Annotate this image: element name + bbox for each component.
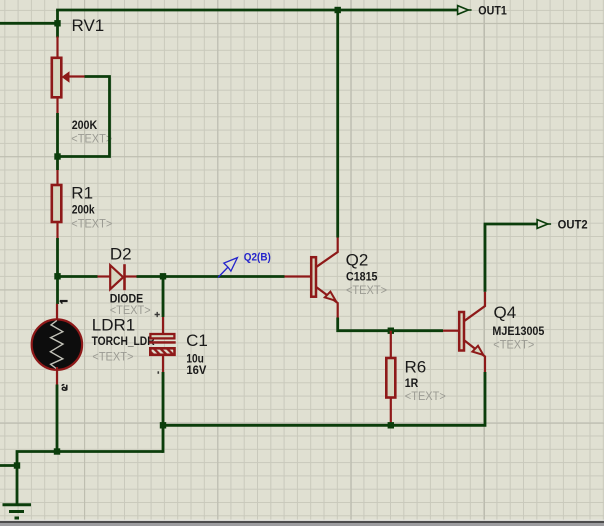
- wire: ground rail horizontal: [17, 452, 163, 466]
- svg-text:R6: R6: [405, 357, 427, 376]
- LDR1 zigzag: [50, 321, 63, 370]
- D2 cathode pin: [124, 275, 136, 277]
- R6 bottom pin: [390, 398, 392, 426]
- transistor Q2: [285, 238, 388, 318]
- junction dot R6 bottom: [388, 422, 394, 428]
- wire: left supply stub into junction: [0, 22, 58, 25]
- capacitor C1: [149, 277, 208, 378]
- wire: riser from junction to top rail: [56, 10, 59, 38]
- svg-text:RV1: RV1: [72, 16, 105, 35]
- svg-text:TORCH_LDR: TORCH_LDR: [92, 334, 155, 348]
- wire: down to ground symbol: [16, 466, 19, 505]
- Q2 collector lead: [317, 238, 338, 267]
- svg-text:OUT2: OUT2: [558, 218, 588, 232]
- junction dot C1 node: [160, 273, 166, 279]
- C1 top plate bar: [149, 341, 175, 344]
- C1 top plate: [150, 334, 174, 338]
- svg-text:OUT1: OUT1: [478, 4, 507, 18]
- Q2 base bar: [311, 257, 316, 297]
- wire: top rail to OUT1: [56, 9, 458, 12]
- wire: R1 bottom to base node: [56, 238, 59, 304]
- wire: C1 node to Q2 base: [163, 275, 285, 278]
- wire: RV1 wiper loop: [58, 77, 110, 157]
- R6 body: [386, 358, 395, 398]
- wire: left edge stub: [0, 464, 17, 467]
- plus mark: [155, 312, 160, 317]
- junction dot ground stub: [14, 462, 20, 468]
- junction dot emitter rail at C1: [160, 422, 166, 428]
- C1 bottom plate hatched: [150, 348, 174, 355]
- ground: [3, 505, 32, 518]
- svg-text:MJE13005: MJE13005: [492, 324, 544, 338]
- svg-text:200k: 200k: [72, 202, 95, 216]
- Q4 emitter lead: [465, 341, 486, 373]
- wire: Q2 emitter down and over to Q4 base: [338, 318, 443, 331]
- photoresistor LDR1: [32, 301, 155, 391]
- terminal OUT1: [458, 4, 507, 18]
- svg-text:LDR1: LDR1: [92, 316, 135, 335]
- svg-text:1R: 1R: [405, 376, 419, 390]
- Q2 emitter lead: [317, 287, 338, 317]
- LDR1 top pin: [56, 304, 58, 322]
- svg-text:R1: R1: [71, 184, 93, 203]
- RV1 wiper arrowhead: [63, 73, 69, 82]
- C1 bottom pin: [162, 355, 164, 372]
- wire: D2 cathode to C1 node: [137, 275, 164, 278]
- junction dot at supply branch: [54, 20, 60, 26]
- RV1 bottom pin: [56, 98, 58, 114]
- diode D2: [98, 245, 151, 317]
- transistor Q4: [443, 292, 545, 372]
- junction dot R6 top: [388, 328, 394, 334]
- pin number 1: [60, 300, 68, 302]
- D2 triangle: [110, 265, 123, 289]
- Q4 base bar: [459, 312, 464, 351]
- R6 top pin: [390, 331, 392, 358]
- wire: C1 bottom down to ground rail corner: [162, 372, 165, 453]
- Q4 collector lead: [465, 292, 486, 321]
- wire: LDR1 bottom to ground rail: [56, 385, 59, 452]
- wire: base node to D2 anode: [58, 275, 98, 278]
- junction dot LDR bottom: [54, 448, 60, 454]
- R1 bottom pin: [56, 222, 58, 238]
- D2 anode pin: [98, 275, 111, 277]
- junction dot wiper/divider: [54, 153, 60, 159]
- terminal OUT2: [537, 218, 588, 232]
- pin number 2: [62, 385, 67, 391]
- svg-text:<TEXT>: <TEXT>: [71, 216, 112, 230]
- RV1 wiper pin: [64, 75, 85, 77]
- R1 top pin: [56, 170, 58, 185]
- svg-text:<TEXT>: <TEXT>: [92, 350, 133, 364]
- svg-text:Q2: Q2: [346, 250, 369, 269]
- potentiometer RV1: [52, 16, 113, 145]
- wire: Q2 collector drop from top rail: [336, 10, 339, 238]
- junction dot at Q2 collector branch on top rail: [335, 7, 341, 13]
- RV1 body: [52, 58, 62, 98]
- resistor R6: [386, 331, 446, 426]
- wire: Q4 collector up to OUT2: [485, 224, 538, 292]
- junction dot base node: [54, 273, 60, 279]
- Q2 base pin: [285, 275, 311, 277]
- LDR1 body circle: [32, 319, 82, 369]
- Q4 emitter arrowhead: [472, 346, 483, 355]
- svg-text:C1815: C1815: [346, 270, 378, 284]
- svg-text:<TEXT>: <TEXT>: [346, 283, 387, 297]
- svg-text:200K: 200K: [72, 118, 98, 132]
- Q2 emitter arrowhead: [325, 292, 336, 301]
- svg-text:Q2(B): Q2(B): [244, 251, 271, 263]
- net label Q2(B): [218, 251, 271, 277]
- D2 cathode bar: [123, 264, 126, 290]
- wire: C1 node down: [162, 277, 165, 318]
- svg-text:C1: C1: [186, 331, 208, 350]
- wire: emitter rail to Q4 emitter: [163, 372, 485, 425]
- RV1 top pin: [56, 37, 58, 58]
- svg-text:<TEXT>: <TEXT>: [71, 131, 112, 145]
- wire: RV1 bottom to junction: [56, 113, 59, 170]
- LDR1 bottom pin: [56, 367, 58, 385]
- minus mark: [157, 371, 159, 374]
- Q4 base pin: [443, 330, 458, 332]
- resistor R1: [52, 170, 113, 238]
- svg-text:D2: D2: [110, 245, 132, 264]
- C1 top pin: [162, 317, 164, 333]
- svg-text:Q4: Q4: [494, 303, 517, 322]
- R1 body: [52, 185, 62, 222]
- svg-text:16V: 16V: [186, 363, 206, 377]
- svg-text:<TEXT>: <TEXT>: [493, 338, 534, 352]
- svg-text:<TEXT>: <TEXT>: [405, 389, 446, 403]
